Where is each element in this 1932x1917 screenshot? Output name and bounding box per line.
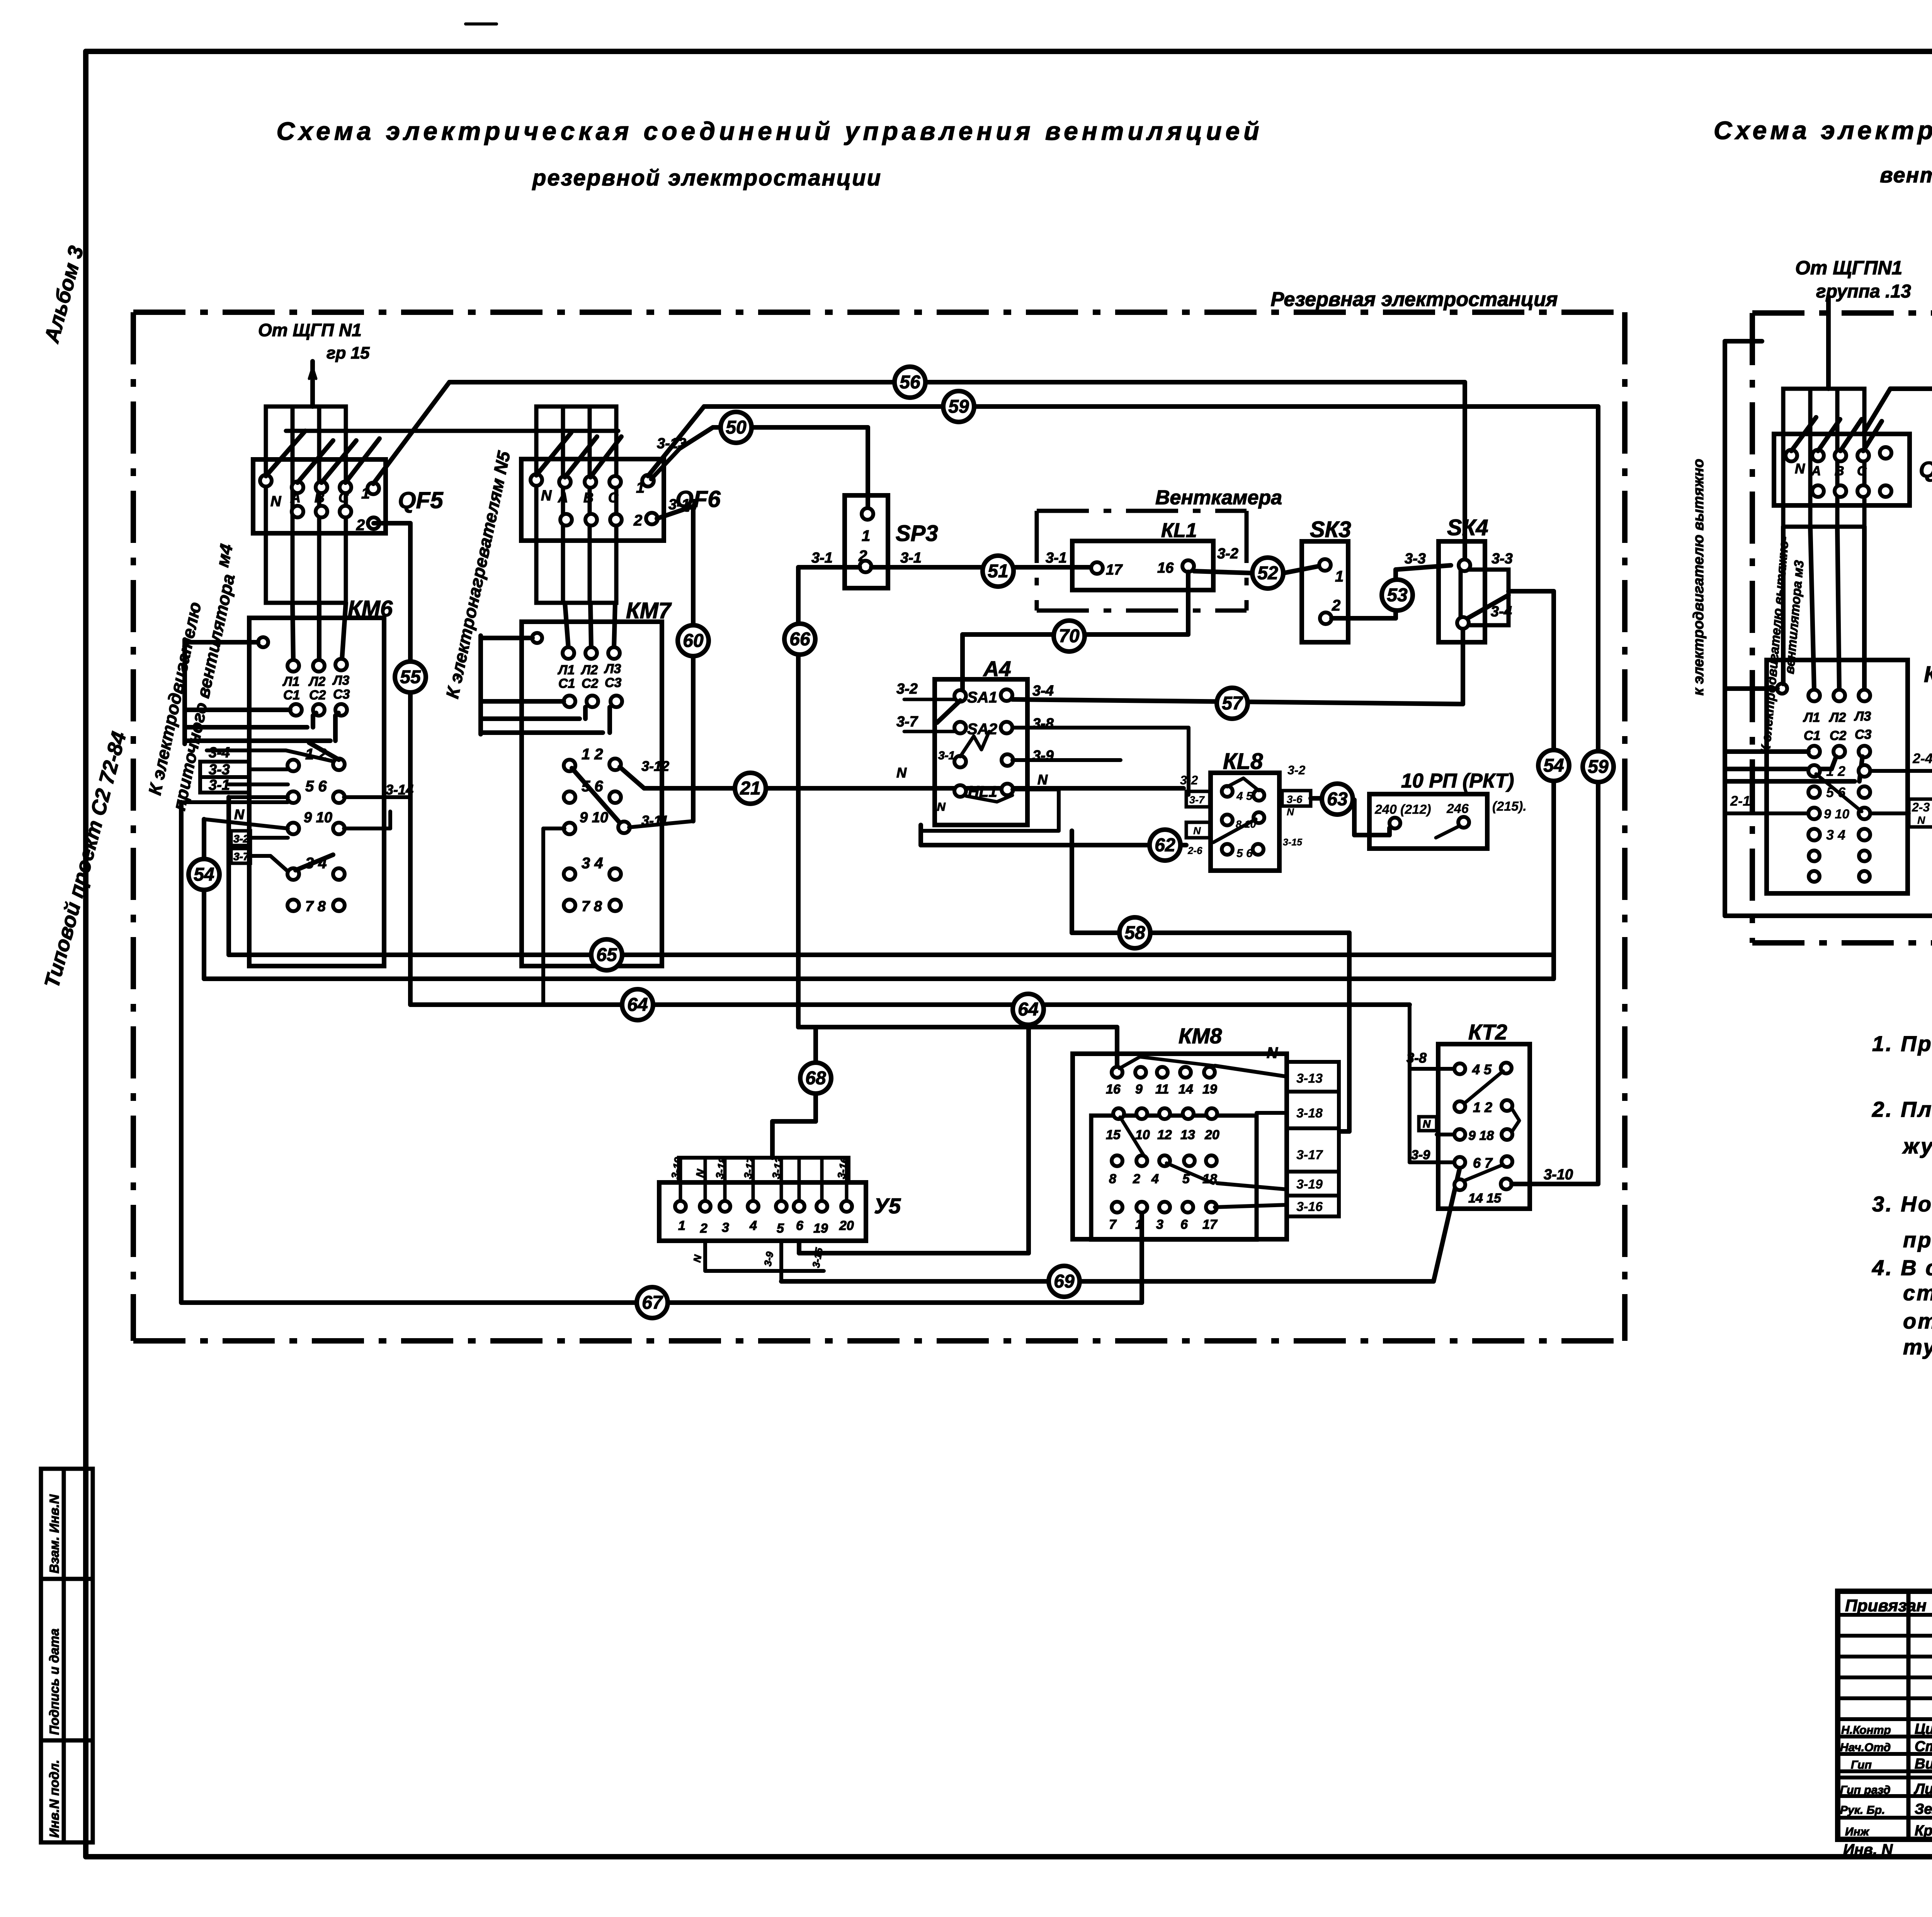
svg-text:Инв. N: Инв. N [1843, 1841, 1893, 1858]
svg-text:63: 63 [1327, 789, 1348, 810]
svg-text:N: N [1795, 461, 1805, 476]
KL8 row 8 10 [1213, 812, 1264, 842]
svg-text:А: А [1811, 464, 1821, 478]
KT2 row 6 7 [1454, 1155, 1512, 1181]
svg-text:N: N [896, 765, 907, 781]
svg-text:Подпись и дата: Подпись и дата [47, 1628, 62, 1735]
svg-text:Л2: Л2 [1828, 710, 1846, 725]
svg-text:С3: С3 [1855, 727, 1872, 742]
svg-text:1: 1 [361, 485, 370, 502]
KT2 row 14 15 [1454, 1179, 1512, 1206]
svg-text:3-3: 3-3 [209, 762, 230, 778]
note 2 [1872, 1097, 1932, 1158]
svg-text:2-3: 2-3 [1912, 800, 1930, 814]
KM6 feeder junction [185, 637, 268, 647]
svg-text:С: С [1857, 464, 1867, 478]
svg-text:6: 6 [1180, 1217, 1188, 1232]
A4 row 3 [954, 731, 1013, 767]
svg-text:Н.Контр: Н.Контр [1841, 1724, 1891, 1737]
wire number circle 54 right [1538, 750, 1569, 781]
svg-text:9 18: 9 18 [1468, 1128, 1494, 1143]
svg-text:гр 15: гр 15 [327, 344, 370, 362]
KM8 terminals row1 [1106, 1057, 1217, 1097]
bus wire to QF6 [286, 429, 618, 433]
svg-text:62: 62 [1155, 835, 1175, 856]
svg-text:3-7: 3-7 [1189, 794, 1205, 806]
left title line 1 [276, 117, 1263, 145]
svg-text:В: В [1835, 464, 1844, 478]
svg-text:10: 10 [1135, 1128, 1150, 1142]
svg-text:QЕ4.: QЕ4. [1919, 457, 1932, 482]
svg-text:16: 16 [1106, 1082, 1121, 1097]
svg-text:резервной электростанции: резервной электростанции [532, 165, 882, 191]
label 3-1 right of SP3 [900, 550, 922, 566]
svg-text:5 6: 5 6 [582, 778, 603, 795]
label 3-3 left of SK4 [1405, 551, 1426, 567]
svg-text:4. В схеме управления венти: 4. В схеме управления вентиляцией электр… [1872, 1255, 1932, 1280]
svg-text:КТ2: КТ2 [1468, 1020, 1507, 1044]
KT2 row 4 5 [1454, 1061, 1512, 1103]
label QF6 [675, 486, 721, 512]
label 3-4 at SK4 [1491, 604, 1512, 620]
svg-text:Инж: Инж [1845, 1825, 1870, 1838]
wire number circle 66 [784, 624, 815, 655]
svg-text:8: 8 [1109, 1172, 1116, 1186]
label KM6 [348, 596, 393, 621]
svg-text:Циганова: Циганова [1915, 1721, 1932, 1737]
svg-text:С1: С1 [1804, 728, 1820, 743]
label 3-13 at QF6 [657, 435, 686, 452]
svg-text:С: С [338, 490, 349, 505]
title block signature rows [1840, 1721, 1932, 1839]
labels 2-3 N at KM5 [1909, 799, 1932, 827]
svg-text:Инв.N подл.: Инв.N подл. [47, 1760, 62, 1838]
svg-text:к электродвигателю вытяжно: к электродвигателю вытяжно [1690, 459, 1707, 696]
svg-text:11: 11 [1155, 1082, 1169, 1097]
contactor KM5 [1767, 660, 1908, 893]
svg-text:56: 56 [900, 372, 920, 393]
svg-text:3 4: 3 4 [1826, 827, 1845, 843]
svg-text:6: 6 [796, 1218, 804, 1233]
svg-text:SР3: SР3 [896, 521, 938, 546]
svg-text:2. План раскладки кабелей: 2. План раскладки кабелей и кабельный [1872, 1097, 1932, 1121]
feeder wire from ЩГП N1 [309, 361, 316, 407]
svg-text:3-18: 3-18 [1296, 1106, 1323, 1121]
KM7 contact row 1 2 [564, 746, 622, 825]
thermal switch SK3 [1302, 541, 1348, 642]
relay block KL8 [1211, 773, 1279, 871]
KM8 terminals row4 [1109, 1202, 1218, 1232]
svg-text:1 2: 1 2 [1473, 1099, 1492, 1115]
wire 70 KL1-16 to A4 [963, 572, 1188, 692]
circuit breaker QE4 [1774, 434, 1910, 505]
rotated label к электродвигателю вытяжного (mid) [1690, 459, 1707, 696]
wire 3-10 from KT2 [1512, 1167, 1598, 1184]
svg-text:9: 9 [1135, 1082, 1143, 1097]
label SK4 [1447, 515, 1488, 540]
svg-text:От ЩГП N1: От ЩГП N1 [258, 320, 362, 340]
svg-text:3-12: 3-12 [641, 758, 669, 774]
wire 67 [181, 1213, 1142, 1303]
wire number circle 21 [735, 773, 766, 804]
svg-text:10 РП (РКТ): 10 РП (РКТ) [1401, 770, 1514, 792]
svg-text:N: N [1423, 1118, 1431, 1130]
KM6 contact row 1 2 [287, 743, 345, 771]
svg-text:9 10: 9 10 [1824, 807, 1849, 822]
svg-text:20: 20 [839, 1218, 854, 1233]
svg-text:2: 2 [633, 512, 642, 529]
svg-text:19: 19 [813, 1221, 828, 1236]
KT2 row 9 18 [1454, 1128, 1512, 1143]
thermal switch SK4 [1439, 541, 1509, 642]
svg-text:3-3: 3-3 [1492, 551, 1513, 567]
wire number circle 51 [983, 556, 1014, 587]
svg-text:15: 15 [1106, 1128, 1121, 1142]
KM7 contact row 7 8 [564, 898, 621, 915]
svg-text:N: N [1917, 814, 1925, 826]
svg-text:64: 64 [627, 995, 648, 1015]
svg-text:С1: С1 [283, 688, 300, 703]
KL8 right labels [1282, 763, 1311, 848]
label 2-1 at KM5 [1730, 793, 1750, 809]
label 240 (212) [1374, 802, 1431, 817]
svg-text:N: N [234, 806, 245, 822]
KM6 coil terminals [282, 659, 350, 716]
note 1 [1872, 1031, 1932, 1056]
svg-text:N: N [1193, 825, 1201, 837]
label Резервная электростанция [1270, 288, 1558, 311]
svg-text:2-1: 2-1 [1730, 793, 1750, 809]
svg-text:станции обозначения данные: станции обозначения данные в скобках [1903, 1281, 1932, 1305]
wire number circle 53 [1382, 580, 1413, 611]
svg-text:240 (212): 240 (212) [1374, 802, 1431, 817]
KM7 contact row 9 10 [564, 810, 630, 834]
svg-text:5: 5 [777, 1221, 784, 1236]
KM6 contact row 5 6 [287, 778, 345, 803]
wire 52 KL1 to SK3 [1194, 566, 1319, 573]
svg-text:У5: У5 [874, 1194, 901, 1218]
svg-text:SК3: SК3 [1310, 517, 1351, 542]
svg-text:1: 1 [678, 1218, 685, 1233]
time relay KT2 [1438, 1044, 1530, 1209]
bus enclosure for QF5 [266, 407, 346, 603]
feeder wire right [1826, 298, 1831, 389]
svg-text:Зельманов: Зельманов [1915, 1801, 1932, 1817]
svg-text:20: 20 [1204, 1128, 1219, 1142]
contactor KM8 outer box [1073, 1054, 1287, 1240]
terminal block KL1 left [1072, 541, 1213, 590]
svg-text:9 10: 9 10 [580, 810, 608, 826]
label Инв N bottom [1843, 1841, 1893, 1858]
svg-text:5 6: 5 6 [305, 778, 327, 795]
svg-text:Схема электрическая соединен: Схема электрическая соединений управлени… [276, 117, 1263, 145]
svg-text:3-1: 3-1 [209, 777, 230, 793]
svg-text:19: 19 [1202, 1082, 1217, 1097]
svg-text:55: 55 [400, 667, 421, 687]
wire 68 branch to KM8 [816, 1027, 1117, 1067]
label 3-3 right of SK4 [1492, 551, 1513, 567]
KM6 contact row 9 10 [287, 810, 345, 834]
QF6 terminal diagonals [536, 433, 621, 477]
left title line 2 [532, 165, 882, 191]
label N at KM8 [1267, 1044, 1278, 1061]
svg-text:16: 16 [1157, 560, 1174, 576]
wire 43 [1864, 389, 1932, 510]
svg-text:246: 246 [1446, 801, 1469, 816]
svg-text:приняты условно .: приняты условно . [1903, 1228, 1932, 1252]
svg-text:3-4: 3-4 [209, 745, 230, 761]
svg-text:5 6: 5 6 [1236, 847, 1253, 860]
title block frame [1838, 1591, 1932, 1839]
label SK3 [1310, 517, 1351, 542]
note 3 [1872, 1192, 1932, 1252]
KM7 contact row 3 4 [564, 855, 621, 880]
svg-text:17: 17 [1106, 562, 1123, 578]
circuit breaker QF5 [253, 459, 386, 534]
switch SP3 [845, 495, 888, 588]
svg-text:69: 69 [1054, 1271, 1075, 1292]
wire number circle 63 [1322, 784, 1353, 815]
wire 58 [1072, 831, 1349, 1131]
svg-text:Резервная электростанция: Резервная электростанция [1270, 288, 1558, 311]
KL8 row 5 6 [1222, 844, 1264, 860]
svg-text:Венткамера: Венткамера [1155, 486, 1282, 509]
svg-text:Виноградов: Виноградов [1915, 1756, 1932, 1772]
wire number circle 62 [1150, 830, 1180, 861]
svg-text:3-10: 3-10 [1544, 1167, 1573, 1183]
label 3-1 left of SP3 [811, 550, 833, 566]
svg-text:Красникова: Красникова [1915, 1823, 1932, 1839]
svg-text:Нач.Отд: Нач.Отд [1840, 1741, 1891, 1754]
wire number circle 50 [721, 412, 752, 443]
KM5 coil terminals [1803, 690, 1872, 757]
svg-text:57: 57 [1222, 693, 1243, 714]
svg-text:59: 59 [948, 396, 969, 417]
svg-text:3-1: 3-1 [938, 749, 955, 762]
wire 21 from KM7 contact [620, 767, 1184, 788]
label 3-12 at KM7 [641, 758, 669, 774]
svg-text:Л2: Л2 [308, 674, 325, 689]
svg-text:3-9: 3-9 [1411, 1148, 1430, 1162]
KM7 contact row 5 6 [564, 778, 621, 803]
label От ЩГП N1 гр 15 [258, 320, 370, 362]
svg-text:52: 52 [1257, 563, 1278, 583]
svg-text:N: N [541, 488, 552, 504]
wire 59 [704, 407, 1598, 1184]
KM5 phase drops [1783, 527, 1864, 690]
svg-text:3 4: 3 4 [582, 855, 603, 872]
label Привязан [1845, 1596, 1927, 1615]
right title line 2 [1880, 163, 1932, 187]
KM6 load wires to приточный вентилятор [185, 640, 338, 744]
svg-text:3-14: 3-14 [386, 782, 413, 798]
wire 56 [449, 382, 1465, 561]
svg-text:70: 70 [1059, 626, 1080, 646]
svg-text:А: А [290, 490, 301, 505]
A4 switch SA1 [937, 689, 1012, 723]
KM5 feeder junction [1726, 684, 1787, 694]
svg-text:9 10: 9 10 [304, 810, 332, 826]
KM7 bottom vertical [543, 828, 565, 1005]
svg-text:Л3: Л3 [332, 673, 349, 688]
wire number circle 60 [678, 625, 709, 656]
svg-text:С2: С2 [1830, 728, 1847, 743]
svg-text:В: В [583, 490, 594, 505]
KM6 wires row connections [181, 784, 288, 1303]
svg-text:1 2: 1 2 [1826, 763, 1845, 779]
svg-text:3-3: 3-3 [1405, 551, 1426, 567]
wire number circle 64 left [622, 989, 653, 1020]
svg-text:QF5: QF5 [398, 487, 444, 513]
contactor KM6 [249, 618, 384, 966]
wire number circle 68 [800, 1063, 831, 1094]
wire number circle 69 [1049, 1266, 1080, 1297]
svg-text:4 5: 4 5 [1236, 790, 1253, 803]
svg-text:N: N [1267, 1044, 1278, 1061]
control box A4 [935, 679, 1027, 825]
KM7 load wires to электронагреватели [481, 636, 610, 734]
svg-text:SА1: SА1 [967, 689, 997, 706]
wire number circle 56 [895, 367, 925, 398]
KT2 left wires and labels [1406, 1005, 1454, 1162]
wire 63 KL8 to 10РП [1311, 798, 1389, 835]
svg-text:Строганов: Строганов [1915, 1738, 1932, 1755]
wire number circle 59 top [943, 391, 974, 422]
svg-text:2: 2 [700, 1221, 707, 1236]
A4 lamp HL1 [954, 783, 1013, 802]
note 4 [1872, 1255, 1932, 1359]
svg-text:54: 54 [194, 864, 214, 885]
KT2 row 1 2 [1454, 1099, 1519, 1132]
KL8 left labels [1180, 773, 1210, 856]
A4 right labels [1032, 683, 1054, 788]
svg-text:2: 2 [858, 548, 867, 565]
wire 54 from SK4 [1509, 591, 1554, 979]
svg-text:3. Номера контактов пускат: 3. Номера контактов пускателей км 7 и км… [1872, 1192, 1932, 1216]
wire 69 [781, 1168, 1460, 1281]
Венткамера enclosure (dash-dot) [1037, 511, 1247, 611]
svg-text:65: 65 [596, 945, 617, 965]
label 3-1 at KL1 [1046, 550, 1067, 566]
svg-text:С1: С1 [558, 676, 575, 691]
svg-text:66: 66 [789, 629, 810, 650]
rotated label К электронагревателям N5 [442, 449, 514, 700]
wire number circle 67 [637, 1287, 668, 1318]
bus enclosure QE4 [1783, 389, 1864, 527]
svg-text:(215).: (215). [1492, 799, 1527, 814]
svg-text:N: N [1037, 772, 1048, 788]
svg-text:Взам. Инв.N: Взам. Инв.N [47, 1494, 62, 1573]
svg-text:67: 67 [642, 1293, 663, 1313]
svg-text:В: В [315, 490, 325, 505]
svg-text:3-4: 3-4 [1491, 604, 1512, 620]
svg-text:2: 2 [1332, 597, 1340, 614]
label KL1 left [1161, 519, 1197, 542]
svg-text:относятся к дизельэлектричес: относятся к дизельэлектрическому агрега- [1903, 1309, 1932, 1333]
margin text Взам. Инв.N [47, 1494, 62, 1573]
QF5 terminal diagonals [266, 431, 379, 483]
svg-text:4: 4 [749, 1218, 757, 1233]
KM7 feeder junction [481, 633, 542, 643]
KL8 row 4 5 [1222, 778, 1264, 803]
label 2-4 at KM5 [1912, 750, 1932, 766]
svg-text:53: 53 [1387, 585, 1408, 606]
label KM5 [1924, 662, 1932, 687]
svg-text:Гип: Гип [1851, 1759, 1872, 1771]
label 3-11 at QF6-2 [668, 497, 697, 513]
wire 66 from SP3-2 [772, 567, 860, 1158]
svg-text:3-7: 3-7 [233, 850, 250, 862]
KM6 contact row 7 8 [287, 898, 345, 915]
wire number circle 57 [1217, 688, 1248, 719]
svg-text:54: 54 [1543, 755, 1564, 776]
KM5 right wires to 46 [1870, 771, 1932, 813]
svg-text:3-1: 3-1 [1046, 550, 1067, 566]
svg-text:3-2: 3-2 [233, 833, 249, 845]
svg-text:Л1: Л1 [557, 663, 575, 677]
svg-text:КМ5.: КМ5. [1924, 662, 1932, 687]
KM7 coil terminals [557, 647, 622, 707]
svg-text:3: 3 [1156, 1217, 1163, 1232]
wire 59 diagonal from QF6-1 [648, 407, 704, 476]
svg-text:От ЩГПN1: От ЩГПN1 [1795, 257, 1902, 279]
svg-text:14 15: 14 15 [1468, 1191, 1502, 1206]
svg-text:1. Принципиальные схемы с: 1. Принципиальные схемы см. лист А0В-5 [1872, 1031, 1932, 1056]
svg-text:64: 64 [1018, 999, 1038, 1020]
svg-text:А4: А4 [983, 657, 1011, 681]
KM6 label N [234, 806, 245, 822]
svg-text:4: 4 [1151, 1172, 1159, 1186]
KM7 phase drops [565, 603, 615, 648]
A4 left labels [896, 681, 955, 813]
wire 65 [229, 953, 1554, 957]
svg-text:С: С [608, 490, 619, 505]
KM5 contact rows [1808, 763, 1870, 882]
svg-text:60: 60 [683, 631, 704, 651]
KM7 row 9-10 wire to 3-11 [629, 821, 693, 827]
svg-text:Гип разд: Гип разд [1840, 1784, 1891, 1796]
svg-text:КМ7: КМ7 [626, 598, 672, 623]
title block left grid [1838, 1591, 1932, 1839]
svg-text:ту 2Э16А3 .: ту 2Э16А3 . [1903, 1335, 1932, 1359]
wire 3-8 from A4 SA2 [1012, 728, 1189, 795]
svg-text:17: 17 [1202, 1217, 1218, 1232]
lower-left revision table [41, 1469, 93, 1842]
svg-text:С3: С3 [333, 687, 350, 702]
svg-text:Схема электрическая соединен: Схема электрическая соединений управлени… [1714, 116, 1932, 145]
svg-text:КL1: КL1 [1161, 519, 1197, 542]
svg-text:7: 7 [1109, 1217, 1117, 1232]
wire 55 from QF5-2 [374, 523, 410, 1005]
KM8 terminals row3 [1109, 1155, 1217, 1186]
A4 switch SA2 [954, 721, 1012, 738]
circuit breaker QF6 [521, 459, 664, 541]
svg-text:7 8: 7 8 [582, 898, 602, 915]
svg-text:С2: С2 [309, 688, 326, 703]
svg-text:2: 2 [356, 517, 365, 534]
wire number circle 70 [1054, 621, 1085, 651]
svg-text:Л3: Л3 [1854, 709, 1871, 724]
right room boundary (dash-dot) шлюз [1752, 313, 1932, 943]
svg-text:68: 68 [805, 1068, 826, 1089]
svg-text:3-2: 3-2 [896, 681, 918, 697]
svg-text:3-17: 3-17 [1296, 1148, 1323, 1162]
wire 51 SP3 to Венткамера KL1 [871, 565, 1091, 570]
KM5 load wires [1726, 752, 1862, 781]
KM8 right cable labels [1287, 1062, 1339, 1216]
KM6 contact row 3 4 [287, 855, 345, 880]
svg-text:3-2: 3-2 [1180, 773, 1198, 787]
